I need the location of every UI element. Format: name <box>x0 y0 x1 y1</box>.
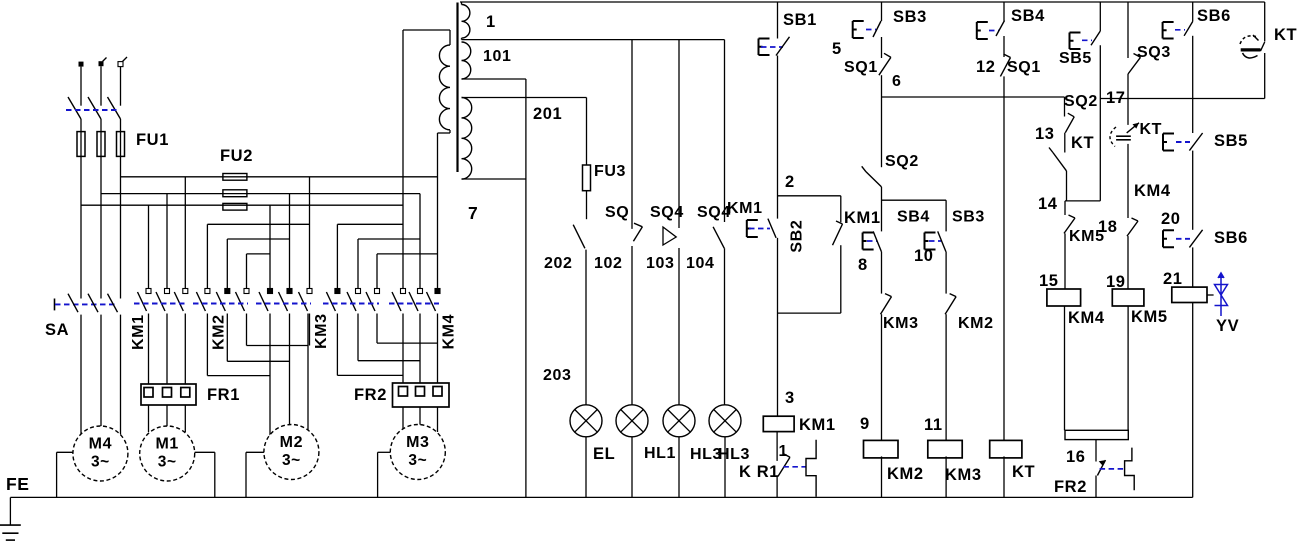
label HL3 <box>718 446 750 463</box>
wire SQ3 branch top <box>1127 2 1129 58</box>
switch SA2 blade (EL) <box>573 225 585 249</box>
pushbutton SB6 <box>1163 22 1193 39</box>
svg-text:10: 10 <box>914 247 934 265</box>
wire KM3 coil to rail <box>945 456 947 497</box>
wire PE rail <box>10 496 1192 498</box>
contactor KM1 blade 2 <box>156 292 165 311</box>
switch QS pole 2 <box>88 97 101 119</box>
svg-text:KM4: KM4 <box>441 314 458 350</box>
wire KM2 pole1 jog <box>207 314 270 376</box>
svg-text:KM3: KM3 <box>313 313 330 349</box>
wire KM3a pole3 to M2 <box>308 314 310 439</box>
label HL2 <box>690 446 722 463</box>
wire rail W to KM3a pole1 <box>269 205 271 288</box>
svg-text:3~: 3~ <box>408 452 427 469</box>
wire KM1 holdloop <box>778 196 841 313</box>
wire link U-KM3p3 <box>376 254 378 289</box>
fuse FU1 a <box>77 132 85 157</box>
label SB3 <box>893 8 927 26</box>
wire KM3 pole1 jog <box>337 314 403 376</box>
wire KM2 pole3 jog <box>247 314 309 346</box>
svg-text:SQ4: SQ4 <box>697 204 731 221</box>
label FU1 <box>136 131 169 149</box>
wire link row3 (KM3) <box>377 253 438 255</box>
contact KM5 NC <box>1064 215 1075 233</box>
label FR2 <box>354 386 387 404</box>
wire node6 corner down <box>1064 97 1066 117</box>
wire HL1 to rail <box>631 437 633 498</box>
KM1 linkage (blue dashed) <box>134 303 187 305</box>
wire link row2 (KM3) <box>358 238 420 240</box>
switch SQ4b cam (HL2) <box>663 227 676 245</box>
svg-text:3~: 3~ <box>158 454 177 471</box>
wire YV to rail <box>1192 303 1194 498</box>
wire SQ2 to node8 <box>881 187 883 232</box>
fuse FU2 a <box>223 174 247 181</box>
svg-text:KM1: KM1 <box>727 200 763 217</box>
svg-text:KT: KT <box>1274 26 1297 44</box>
wire M3 earth <box>378 452 391 497</box>
svg-text:HL3: HL3 <box>718 446 750 463</box>
limit switch SQ3 <box>1128 54 1141 75</box>
svg-text:12: 12 <box>976 58 996 76</box>
wire KM4 pole2 to FR2 <box>419 314 421 384</box>
wire FR2 to M3 c <box>437 407 439 432</box>
svg-text:KM3: KM3 <box>945 466 982 484</box>
label SB2 (rotated) <box>789 220 806 253</box>
svg-text:K R1: K R1 <box>739 463 779 481</box>
svg-text:20: 20 <box>1161 210 1181 228</box>
wire rail U to KM3a pole3 <box>309 177 311 289</box>
label 8 <box>858 256 868 274</box>
wire link W-KM2p1 <box>206 224 208 288</box>
svg-text:FE: FE <box>6 474 30 494</box>
label SB5 NC <box>1214 132 1248 150</box>
label KM3 NC <box>883 315 919 332</box>
wire HL2 to rail <box>678 437 680 498</box>
supply terminal L3 <box>118 57 127 67</box>
wire 19 <box>1127 236 1129 289</box>
wire SB1 branch top <box>777 2 779 39</box>
contactor KM1 blade 3 <box>174 292 183 311</box>
label 1 at KR1 <box>779 443 789 460</box>
wire rail W (from L1) <box>81 204 403 206</box>
wire M4 earth <box>57 452 73 497</box>
KM4 pole1 terminal <box>401 289 406 294</box>
label 102 <box>594 255 623 272</box>
wire SB4 branch top <box>1003 2 1005 21</box>
label 21 <box>1163 270 1183 288</box>
wire FR1 to M1 b <box>166 405 168 427</box>
label KT coil <box>1012 463 1035 481</box>
wire EL to rail <box>585 437 587 498</box>
wire link row1 (KM3) <box>337 223 403 225</box>
KM3a pole2 terminal <box>287 289 292 294</box>
label 13 <box>1035 125 1055 143</box>
label 203 <box>543 367 572 384</box>
wire KM2 coil to rail <box>881 456 883 497</box>
wire node8 horizontal <box>882 199 947 201</box>
wire KM1 pole1 to FR1 <box>148 314 150 385</box>
wire primary top lead <box>403 30 450 45</box>
svg-text:11: 11 <box>924 416 943 434</box>
svg-text:14: 14 <box>1038 195 1058 213</box>
svg-text:FR2: FR2 <box>354 386 387 404</box>
label FE <box>6 474 30 494</box>
svg-text:FR2: FR2 <box>1054 478 1087 496</box>
label SQ1 <box>844 59 878 76</box>
wire KM5NC from node14 <box>1064 201 1066 215</box>
contactor KM2 blade 1 <box>196 292 205 311</box>
wire EL above switch <box>586 191 588 220</box>
KM2 pole2 terminal <box>225 289 230 294</box>
FR2 heater 1 <box>399 387 408 397</box>
label SQ4 a <box>650 204 684 221</box>
svg-text:KM1: KM1 <box>844 209 881 227</box>
label FU2 <box>220 147 253 165</box>
wire SA pole2 to M4 <box>100 315 102 430</box>
svg-text:M3: M3 <box>406 434 429 451</box>
svg-text:1: 1 <box>779 443 789 460</box>
wire KT coil to rail <box>1003 456 1005 497</box>
wire primary lead B down <box>437 133 439 289</box>
wire 11 <box>945 314 947 440</box>
wire rail V to KM1 pole2 <box>166 194 168 289</box>
svg-text:SQ2: SQ2 <box>1064 93 1098 110</box>
label 104 <box>686 255 715 272</box>
motor M4 <box>73 426 128 481</box>
wire HL3 to rail <box>724 437 726 498</box>
pushbutton SB3 contact <box>925 231 946 251</box>
KM4 pole2 terminal <box>418 289 423 294</box>
motor M2 <box>264 425 319 480</box>
wire FR2 to rail <box>1095 476 1097 498</box>
contact KT NC <box>1049 148 1067 171</box>
svg-text:104: 104 <box>686 255 715 272</box>
switch SA pole 3 <box>108 294 118 313</box>
wire KM4 pole3 to FR2 <box>437 314 439 384</box>
svg-text:SQ1: SQ1 <box>1007 59 1041 76</box>
wire KM4 coil down <box>1064 306 1066 430</box>
fuse FU1 c <box>117 132 125 157</box>
svg-text:SQ2: SQ2 <box>885 153 919 170</box>
wire link V-KM2p2 <box>226 239 228 289</box>
label SB4 <box>897 209 930 226</box>
label 15 <box>1039 272 1059 290</box>
wire 12 <box>1003 36 1005 57</box>
svg-text:21: 21 <box>1163 270 1183 288</box>
label KM2 coil <box>887 465 924 483</box>
contactor KM3 blade 3 <box>366 292 375 311</box>
wire 6 <box>881 75 883 167</box>
label SQ2 b <box>1064 93 1098 110</box>
KM3a pole3 terminal <box>307 289 312 294</box>
lamp HL2 <box>663 405 695 437</box>
label 2 <box>785 173 795 191</box>
svg-text:18: 18 <box>1098 218 1118 236</box>
svg-text:15: 15 <box>1039 272 1059 290</box>
contactor KM4 blade 2 <box>409 292 418 311</box>
wire L2 to SA <box>100 119 102 299</box>
label KT NC <box>1071 134 1094 152</box>
contactor KM4 blade 3 <box>427 292 436 311</box>
wire KM1 pole3 to FR1 <box>184 314 186 385</box>
svg-text:FU3: FU3 <box>594 163 626 180</box>
svg-text:SQ3: SQ3 <box>1137 44 1171 61</box>
svg-text:SB5: SB5 <box>1059 50 1092 67</box>
switch SA pole 2 <box>88 294 98 313</box>
wire SB6 down <box>1192 36 1194 133</box>
wire rail W to KM1 pole1 <box>148 205 150 288</box>
wire L3 to SA <box>120 119 122 299</box>
switch blade (HL3) <box>713 227 724 249</box>
fuse FU1 b <box>97 132 105 157</box>
label SQ2 <box>885 153 919 170</box>
wire 21 <box>1192 247 1194 287</box>
coil KT <box>990 440 1022 458</box>
wire 201 lead <box>462 97 587 99</box>
svg-text:201: 201 <box>533 105 562 123</box>
svg-text:3~: 3~ <box>282 452 301 469</box>
pushbutton SB2 <box>747 219 776 238</box>
wire 10 <box>945 252 947 294</box>
KM2 pole3 terminal <box>244 289 249 294</box>
svg-text:KM2: KM2 <box>887 465 924 483</box>
label 19 <box>1106 273 1126 291</box>
coil KM1 <box>763 416 794 431</box>
wire KT coil branch <box>1003 76 1005 440</box>
wire W2 bottom lead <box>462 78 526 80</box>
label FR1 <box>207 386 240 404</box>
svg-text:17: 17 <box>1106 89 1126 107</box>
wire HL2 branch upper <box>678 40 680 228</box>
contact KM4 NC <box>1127 218 1138 236</box>
lamp HL1 <box>616 405 648 437</box>
pushbutton SB1 <box>759 37 790 56</box>
contact KM2 NC <box>945 294 956 315</box>
wire KM5 coil down <box>1127 306 1129 430</box>
svg-text:KM1: KM1 <box>799 416 836 434</box>
svg-text:203: 203 <box>543 367 572 384</box>
svg-text:6: 6 <box>892 73 902 90</box>
wire L1 <box>80 67 82 106</box>
ground symbol <box>0 497 21 540</box>
svg-text:KM2: KM2 <box>958 315 994 332</box>
wire 15 <box>1064 233 1066 289</box>
pushbutton SB4 <box>977 21 1005 40</box>
label 6 <box>892 73 902 90</box>
svg-text:SB4: SB4 <box>897 209 930 226</box>
contactor KM3a blade 3 <box>299 292 308 311</box>
label 17 <box>1106 89 1126 107</box>
switch QS pole 3 <box>108 97 121 119</box>
wire L1 to SA <box>80 119 82 299</box>
supply terminal L1 <box>79 62 84 67</box>
wire SA pole3 to M4 <box>120 315 122 437</box>
label KM1 at HL3 <box>727 200 763 217</box>
wire KM1 pole2 to FR1 <box>166 314 168 385</box>
label 103 <box>646 255 675 272</box>
label KM4 mid <box>1134 182 1171 200</box>
wire M1 earth <box>195 452 215 497</box>
label 16 <box>1066 448 1086 466</box>
pushbutton SB5 <box>1070 31 1101 49</box>
label 18 <box>1098 218 1118 236</box>
svg-text:HL1: HL1 <box>644 445 676 462</box>
svg-text:KM2: KM2 <box>211 314 228 350</box>
label KT delayed <box>1140 121 1163 138</box>
KM1 pole2 terminal <box>165 289 170 294</box>
label 10 <box>914 247 934 265</box>
svg-text:M1: M1 <box>155 436 178 453</box>
wire link row2 (KM2) <box>227 238 289 240</box>
limit switch SQ2 <box>862 166 882 187</box>
contactor KM3a blade 1 <box>259 292 268 311</box>
label SQ1 b <box>1007 59 1041 76</box>
FR1 heater 2 <box>163 388 172 398</box>
wire FR2 to M3 b <box>419 407 421 427</box>
wire 13 <box>1064 133 1066 153</box>
wire 103 HL2 to lamp <box>678 248 680 405</box>
pushbutton SB4 contact <box>863 231 882 251</box>
wire 16 to FR2 contact <box>1095 440 1097 462</box>
label FU3 <box>594 163 626 180</box>
wire rail U (from L3) <box>121 176 438 178</box>
KM3 pole3 terminal <box>375 289 380 294</box>
wire link V-KM3p2 <box>357 239 359 289</box>
svg-text:FR1: FR1 <box>207 386 240 404</box>
fuse FU2 b <box>223 190 247 197</box>
KM3a linkage (blue dashed) <box>256 303 311 305</box>
KM3a pole1 terminal <box>268 289 273 294</box>
wire HL1 branch upper <box>631 40 633 229</box>
wire primary bottom lead <box>438 130 451 133</box>
svg-text:7: 7 <box>468 203 478 223</box>
thermal relay FR1 box <box>141 384 196 405</box>
svg-text:EL: EL <box>593 445 615 463</box>
svg-text:SB6: SB6 <box>1197 7 1231 25</box>
transformer secondary winding 1 <box>462 2 470 40</box>
KM4 pole3 terminal <box>435 289 440 294</box>
pushbutton SB6 NC <box>1163 230 1203 248</box>
svg-text:1: 1 <box>486 13 496 31</box>
KM2 pole1 terminal <box>205 289 210 294</box>
motor M3 <box>390 425 445 480</box>
label KR1 <box>739 463 779 481</box>
wire 104 HL3 to lamp <box>724 248 726 405</box>
wire 20 <box>1192 151 1194 230</box>
wire KM3 pole2 jog <box>358 314 420 361</box>
FR2 heater 2 <box>416 387 425 397</box>
label 7 <box>468 203 478 223</box>
thermal relay FR2 box <box>393 383 450 407</box>
svg-text:SB2: SB2 <box>789 220 806 253</box>
wire SB5 down to node14 <box>1099 45 1101 201</box>
label 14 <box>1038 195 1058 213</box>
wire SA pole1 to M4 <box>80 315 82 437</box>
label KM1 coil <box>799 416 836 434</box>
KM3 linkage (blue dashed) <box>323 303 379 305</box>
label 9 <box>860 415 870 433</box>
svg-text:3~: 3~ <box>91 454 110 471</box>
wire KT branch top <box>1264 2 1266 42</box>
wire 7 (common) <box>525 79 527 497</box>
transformer primary winding <box>439 45 450 130</box>
svg-text:FU2: FU2 <box>220 147 253 165</box>
KM1 pole3 terminal <box>183 289 188 294</box>
wire W3 bottom lead <box>462 178 526 180</box>
transformer secondary winding 2 <box>462 42 471 79</box>
switch SQ4a blade (HL1) <box>633 223 642 241</box>
label SB5 top <box>1059 50 1092 67</box>
wire FR1 to M1 a <box>148 405 150 432</box>
supply terminal L2 <box>99 58 107 67</box>
wire rail V to KM3a pole2 <box>289 194 291 289</box>
limit switch SQ1 b <box>1000 54 1010 76</box>
wire KM1 holdloop top <box>778 195 841 197</box>
label 1 (wire 1) <box>486 13 496 31</box>
wire rail U to KM1 pole3 <box>184 177 186 289</box>
wire 5 <box>881 37 883 58</box>
wire 8 <box>881 252 883 294</box>
label KM1 (rotated) <box>130 314 147 350</box>
svg-text:202: 202 <box>544 255 573 272</box>
wire KM3 pole3 jog <box>377 314 438 344</box>
svg-text:KM5: KM5 <box>1131 308 1168 326</box>
wire rail V to KM4 pole2 <box>419 194 421 289</box>
KM1 pole1 terminal <box>146 289 151 294</box>
coil KM3 <box>928 440 962 458</box>
KM2 linkage (blue dashed) <box>193 303 248 305</box>
wire SB3b from node8 <box>945 200 947 231</box>
KM3 pole1 terminal <box>335 289 340 294</box>
FR1 heater 3 <box>181 388 190 398</box>
label SB4 top <box>1011 7 1045 25</box>
svg-text:KM1: KM1 <box>130 314 147 350</box>
coil KM2 <box>864 440 899 458</box>
svg-text:2: 2 <box>785 173 795 191</box>
wire 18 <box>1127 144 1129 218</box>
label 5 <box>832 40 842 58</box>
svg-text:SA: SA <box>45 321 69 339</box>
wire node17 horizontal <box>1100 98 1264 100</box>
contact KM3 NC <box>881 294 892 315</box>
KM3 pole2 terminal <box>356 289 361 294</box>
wire SB3 branch top <box>881 2 883 21</box>
wire 2 <box>777 56 779 219</box>
wire M2 earth <box>246 452 264 497</box>
wire 14 <box>1066 171 1068 201</box>
label KT top <box>1274 26 1297 44</box>
svg-text:KT: KT <box>1140 121 1163 138</box>
label KM4 (rotated) <box>441 314 458 350</box>
wire SB5 branch top <box>1099 2 1101 31</box>
svg-text:SB5: SB5 <box>1214 132 1248 150</box>
svg-text:9: 9 <box>860 415 870 433</box>
label 101 <box>483 48 512 65</box>
contactor KM2 blade 2 <box>216 292 225 311</box>
label 11 <box>924 416 943 434</box>
wire L2 <box>100 66 102 106</box>
limit switch SQ1 <box>879 53 891 75</box>
node box 16 <box>1065 430 1128 439</box>
wire rail V (from L2) <box>101 193 420 195</box>
transformer core <box>456 3 458 173</box>
svg-text:101: 101 <box>483 48 512 65</box>
wire 202 EL to lamp <box>585 250 587 405</box>
wire KM4 pole1 to FR2 <box>402 314 404 384</box>
transformer secondary winding 3 <box>462 98 472 180</box>
